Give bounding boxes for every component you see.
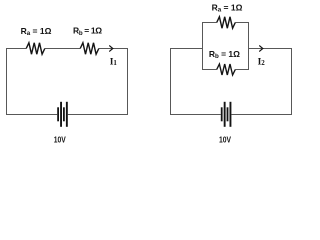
svg-text:10V: 10V: [54, 135, 67, 144]
svg-text:10V: 10V: [219, 135, 232, 144]
svg-text:Rb = 1Ω: Rb = 1Ω: [73, 26, 102, 37]
svg-text:Ra = 1Ω: Ra = 1Ω: [21, 26, 52, 37]
svg-text:I1: I1: [110, 57, 118, 67]
svg-text:I2: I2: [258, 57, 266, 67]
svg-text:Rb = 1Ω: Rb = 1Ω: [209, 49, 240, 60]
svg-text:Ra = 1Ω: Ra = 1Ω: [212, 2, 243, 13]
